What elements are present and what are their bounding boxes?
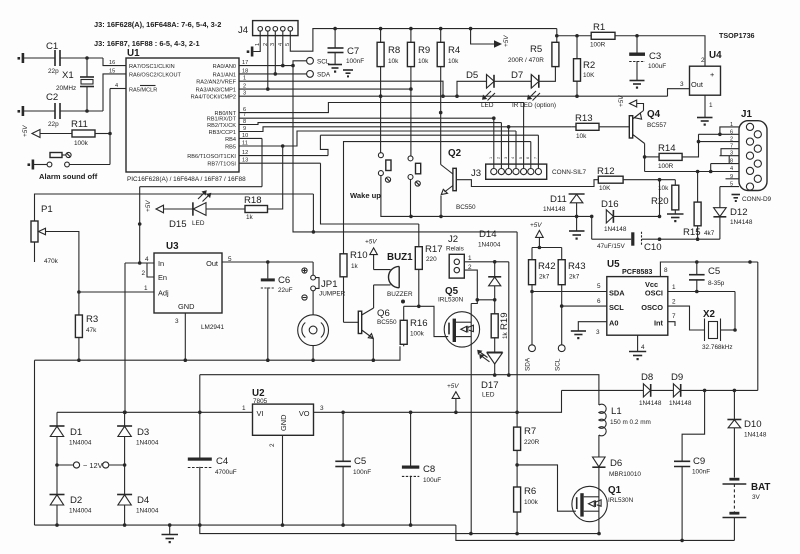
svg-text:BC550: BC550 <box>456 204 476 211</box>
resistor R10 <box>340 250 368 322</box>
wire OSCO to X2 <box>668 306 705 330</box>
wire row187 <box>140 186 262 188</box>
svg-text:C9: C9 <box>693 456 705 467</box>
resistor R8 <box>377 29 400 67</box>
wire J3 v7 <box>537 135 539 168</box>
wire J3 v3 <box>508 127 510 168</box>
svg-text:C5: C5 <box>708 266 720 277</box>
wire J1 pin3-8 bracket <box>728 156 730 164</box>
circle SDA <box>307 71 331 79</box>
diode D5 LED <box>466 70 495 109</box>
svg-text:U1: U1 <box>127 48 140 59</box>
wire C1 left <box>24 57 55 59</box>
ground at C2 <box>18 106 25 116</box>
node R42 R43 feed <box>538 246 542 250</box>
LED D17 <box>477 350 503 399</box>
wire RB3 row to R13 <box>239 127 572 132</box>
svg-text:R19: R19 <box>499 312 510 330</box>
svg-text:LM2941: LM2941 <box>201 324 225 331</box>
wire R42 R43 top row <box>532 247 562 249</box>
svg-text:PCF8583: PCF8583 <box>622 267 652 276</box>
node Adj junction <box>77 290 81 294</box>
svg-text:1N4148: 1N4148 <box>744 432 767 439</box>
node D3 top <box>123 411 127 415</box>
svg-text:R43: R43 <box>568 261 586 272</box>
svg-text:R5: R5 <box>530 44 542 55</box>
wire R1 row left <box>557 35 591 37</box>
svg-text:10k: 10k <box>448 58 459 65</box>
node R5 top tap <box>555 34 559 38</box>
svg-text:BAT: BAT <box>751 482 770 493</box>
svg-text:+5V: +5V <box>447 383 459 390</box>
svg-text:D7: D7 <box>511 70 523 81</box>
svg-text:100nF: 100nF <box>692 469 710 476</box>
wire J3 v6 <box>530 142 532 169</box>
crystal X2 <box>702 309 735 351</box>
wire RA4 long row <box>239 95 668 97</box>
node +5V tap <box>469 27 473 31</box>
svg-text:C6: C6 <box>278 275 290 286</box>
ground small at SDA <box>343 70 353 77</box>
ground at A0 <box>571 331 586 339</box>
wire Q6 base <box>344 321 359 323</box>
node X2 right <box>733 328 737 332</box>
node Q6 emitter <box>372 358 376 362</box>
node D2 bottom <box>55 523 59 527</box>
svg-text:J3: 16F628(A), 16F648A: 7-6, 5: J3: 16F628(A), 16F648A: 7-6, 5-4, 3-2 <box>94 20 221 29</box>
node C5 top on rail <box>695 260 699 264</box>
wire U3 Out row <box>222 261 313 263</box>
svg-text:+5V: +5V <box>618 95 625 107</box>
svg-text:1N4148: 1N4148 <box>543 206 566 213</box>
svg-text:C7: C7 <box>347 46 359 57</box>
transistor Q6 BC550 <box>358 308 397 339</box>
svg-text:SDA: SDA <box>317 72 331 79</box>
svg-text:100k: 100k <box>524 499 539 506</box>
connector J3 <box>471 157 587 179</box>
resistor R6 <box>514 486 539 512</box>
svg-text:D8: D8 <box>641 372 653 383</box>
wire J4 pin5 to +5V rail <box>290 29 335 52</box>
ground at U5 <box>629 352 646 361</box>
svg-text:22p: 22p <box>48 68 59 75</box>
node v140 dot <box>138 222 142 226</box>
wire RA3 row <box>239 88 411 90</box>
wire arrow to D15 <box>164 208 193 210</box>
resistor R20 <box>651 180 679 214</box>
diode D12 <box>713 207 752 239</box>
svg-text:1N4004: 1N4004 <box>136 440 159 447</box>
resistor R1 <box>590 22 615 49</box>
+5V arrow at Q4 <box>618 95 644 111</box>
svg-text:100R: 100R <box>590 42 606 49</box>
node D16 left <box>590 215 594 219</box>
capacitor C8 polarized <box>402 412 441 525</box>
wire v140 down to U3 In <box>139 187 141 263</box>
svg-text:C3: C3 <box>649 51 661 62</box>
wire gate row <box>404 306 449 336</box>
svg-text:VO: VO <box>299 409 310 418</box>
svg-text:A0: A0 <box>609 319 618 328</box>
wire Q1 drain-source vertical <box>598 468 600 534</box>
svg-text:2: 2 <box>269 443 276 447</box>
node C4 top / row375 <box>198 411 202 415</box>
svg-text:47k: 47k <box>86 327 97 334</box>
+5V arrow at R11 <box>22 125 40 138</box>
svg-text:R13: R13 <box>575 113 593 124</box>
node mid rail v517 <box>515 532 519 536</box>
wire R14 right up to J1 pin2 <box>682 134 698 157</box>
wire row 135 to J3 v7 <box>320 134 538 136</box>
+5V arrow at R42 <box>530 222 543 248</box>
svg-text:Alarm sound off: Alarm sound off <box>39 172 98 181</box>
svg-text:BC550: BC550 <box>377 319 397 326</box>
wire D16 left drop <box>591 216 593 239</box>
svg-text:R3: R3 <box>86 314 98 325</box>
svg-text:OSCI: OSCI <box>645 289 663 298</box>
svg-text:22uF: 22uF <box>278 287 293 294</box>
wire right loop down <box>757 262 759 390</box>
wire SCL row <box>562 305 607 307</box>
wire U2 GND down <box>282 435 284 525</box>
svg-text:En: En <box>158 273 167 282</box>
ground at U4 <box>697 118 713 126</box>
resistor R3 <box>75 292 98 360</box>
wire X2 up to OSCI row <box>734 292 736 331</box>
svg-text:100uF: 100uF <box>423 477 441 484</box>
wire J1 pin8 drop to pin4 row <box>710 164 712 172</box>
ground at J1 <box>732 195 741 203</box>
svg-text:2: 2 <box>672 299 676 306</box>
wire R18 right up to RB5 row <box>268 146 283 209</box>
wire J1 pin5 stub <box>720 186 739 188</box>
svg-text:3: 3 <box>504 157 508 159</box>
node U3 GND <box>184 358 188 362</box>
wire osc2 pin15 <box>103 74 126 111</box>
svg-text:4: 4 <box>641 344 645 351</box>
svg-text:R2: R2 <box>583 60 595 71</box>
node C7 top <box>333 27 337 31</box>
svg-text:C2: C2 <box>46 92 58 103</box>
resistor R2 <box>574 36 596 96</box>
node R4 bottom <box>439 111 443 115</box>
svg-text:In: In <box>158 259 164 268</box>
svg-text:32.768kHz: 32.768kHz <box>702 344 733 351</box>
svg-text:D14: D14 <box>479 229 497 240</box>
wire J4 pin2 down <box>267 31 269 89</box>
+5V arrow at D15 <box>145 200 164 213</box>
wire SCL drop to row232 <box>293 66 517 232</box>
svg-text:100nF: 100nF <box>346 58 364 65</box>
wire RB6 row <box>239 155 328 157</box>
svg-text:RA3/AN3/CMP1: RA3/AN3/CMP1 <box>196 88 236 94</box>
svg-text:R7: R7 <box>524 426 536 437</box>
crystal X1 <box>56 58 94 111</box>
svg-text:BUZ1: BUZ1 <box>387 252 413 263</box>
node speaker bottom <box>311 358 315 362</box>
svg-text:R14: R14 <box>658 143 676 154</box>
svg-text:100uF: 100uF <box>648 63 666 70</box>
+5V arrow top <box>471 29 510 48</box>
buzzer BUZ1 <box>374 252 414 304</box>
wire U3 In row <box>125 262 154 264</box>
LED D15 <box>169 190 211 230</box>
transistor Q4 BC557 <box>629 109 667 144</box>
wire OSCI row <box>668 291 735 293</box>
svg-text:RB1/RX/DT: RB1/RX/DT <box>207 116 237 122</box>
wire left rail down <box>34 360 36 525</box>
wire VI rail <box>57 411 253 413</box>
node R8 top <box>379 27 383 31</box>
node J4 pin4 to RA0 <box>281 64 285 68</box>
wire A0 ground <box>578 322 607 331</box>
IC U2 7805 <box>242 388 324 447</box>
circle SCL <box>307 57 330 65</box>
svg-text:RA5/MCLR: RA5/MCLR <box>129 88 157 94</box>
svg-text:J1: J1 <box>741 109 752 120</box>
node R3 bottom <box>77 358 81 362</box>
svg-text:470k: 470k <box>44 258 59 265</box>
svg-text:R17: R17 <box>425 244 443 255</box>
svg-text:X1: X1 <box>62 70 74 81</box>
node C6 bottom <box>266 358 270 362</box>
node R11 junction <box>108 132 112 136</box>
wire U5 pin4 ground <box>637 335 639 351</box>
svg-text:SCL: SCL <box>609 303 624 312</box>
svg-text:4k7: 4k7 <box>704 230 715 237</box>
node Q2 emitter join <box>439 215 443 219</box>
wire RB4 row to v262 <box>239 137 262 139</box>
wire RB6 row S jog <box>320 135 328 155</box>
node row232 tee <box>312 230 316 234</box>
node D4 bottom <box>123 523 127 527</box>
ground at bottom rail <box>162 525 179 543</box>
wire switch1 bottom L <box>381 176 412 217</box>
svg-text:JUMPER: JUMPER <box>319 291 346 298</box>
wire D11 down to ground <box>576 216 578 230</box>
wire ground to switch <box>34 164 47 166</box>
node switch2 join <box>409 215 413 219</box>
wire Q5 drain-source vertical <box>470 304 472 534</box>
svg-text:D15: D15 <box>169 219 187 230</box>
svg-text:1N4148: 1N4148 <box>669 400 692 407</box>
capacitor C1 <box>46 41 60 75</box>
wire J1 pin9 stub <box>726 178 740 180</box>
svg-text:C4: C4 <box>216 456 229 467</box>
svg-text:D6: D6 <box>610 458 622 469</box>
node D17 bottom <box>493 373 497 377</box>
svg-text:C10: C10 <box>644 242 662 253</box>
wire Q6 emitter down <box>372 339 374 361</box>
potentiometer P1 <box>31 204 59 265</box>
IC U1 PIC16F628 box <box>109 48 248 183</box>
wire RB1 row to J3 pin1 <box>239 117 494 119</box>
switch Wake up 2 <box>408 156 421 186</box>
diode D4 <box>117 465 159 525</box>
svg-text:D4: D4 <box>137 495 150 506</box>
wire J1 pin1 bracket <box>720 127 739 134</box>
node +5V arrow rail <box>454 411 458 415</box>
svg-text:1k: 1k <box>246 214 254 221</box>
svg-text:RB3/CCP1: RB3/CCP1 <box>209 130 236 136</box>
node R9 top <box>409 27 413 31</box>
ground at J4 pin1 <box>247 47 254 57</box>
node In drop <box>123 411 127 415</box>
resistor R11 <box>71 119 95 147</box>
node D14 top <box>493 260 497 264</box>
node Q4 collector R14 <box>643 155 647 159</box>
svg-text:4700uF: 4700uF <box>215 469 237 476</box>
svg-text:RA1/AN1: RA1/AN1 <box>213 72 236 78</box>
capacitor C2 <box>46 92 60 128</box>
node C5n bottom <box>341 523 345 527</box>
wire osc1 pin16 <box>103 58 126 66</box>
wire D8 row left <box>562 389 644 391</box>
wire RB5 row to J3 v4 <box>239 131 516 146</box>
node D11 on emitter row <box>575 215 579 219</box>
wire RA1 row to SDA <box>239 73 307 75</box>
svg-text:U3: U3 <box>166 241 179 252</box>
connector J4 <box>238 21 298 46</box>
svg-text:3: 3 <box>320 405 324 412</box>
svg-text:PIC16F628(A) / 16F648A / 16F87: PIC16F628(A) / 16F648A / 16F87 / 16F88 <box>127 176 246 183</box>
svg-text:6: 6 <box>526 157 530 159</box>
svg-text:+5V: +5V <box>503 35 510 47</box>
svg-text:100nF: 100nF <box>353 469 371 476</box>
connector J2 <box>446 234 472 278</box>
svg-text:3: 3 <box>680 81 684 88</box>
svg-text:1: 1 <box>709 102 713 109</box>
svg-text:RB5: RB5 <box>225 144 236 150</box>
wire J1 pin2 stub <box>699 141 740 143</box>
svg-text:SDA: SDA <box>525 357 532 371</box>
capacitor C3 polarized <box>629 36 666 80</box>
node D10 top <box>733 389 737 393</box>
svg-text:Relais: Relais <box>446 246 464 253</box>
svg-text:8: 8 <box>664 267 668 274</box>
wire P1 wiper to R3 <box>45 232 79 293</box>
node C5n top <box>341 411 345 415</box>
svg-text:J2: J2 <box>448 234 458 245</box>
svg-text:X2: X2 <box>703 309 716 320</box>
node C5 bottom <box>695 290 699 294</box>
node J4 pin2 to RA3 <box>266 87 270 91</box>
IC U4 TSOP1736 <box>680 31 755 109</box>
svg-text:RB2/TX/CK: RB2/TX/CK <box>207 123 236 129</box>
wire En bracket <box>147 263 154 277</box>
svg-text:6: 6 <box>597 298 601 305</box>
svg-text:JP1: JP1 <box>321 279 338 290</box>
wire D7 to D5 <box>494 80 531 82</box>
wire J2 pin1 <box>464 261 509 263</box>
wire J1 pin5 down to D12 <box>719 187 721 208</box>
node R17 bottom <box>417 305 421 309</box>
svg-text:RB6/T1OSO/T1CKI: RB6/T1OSO/T1CKI <box>187 154 236 160</box>
svg-text:J3: 16F87, 16F88 : 6-5, 4-3, 2: J3: 16F87, 16F88 : 6-5, 4-3, 2-1 <box>94 39 200 48</box>
svg-text:1N4148: 1N4148 <box>639 400 662 407</box>
+5V arrow at BUZ1 <box>365 239 377 270</box>
svg-text:10K: 10K <box>599 185 611 192</box>
svg-text:Q1: Q1 <box>608 485 622 496</box>
svg-text:4: 4 <box>511 157 515 159</box>
svg-text:2: 2 <box>497 157 501 159</box>
resistor R17 <box>415 224 442 306</box>
resistor R13 <box>575 113 599 140</box>
wire J2 pin2 <box>464 270 477 300</box>
svg-text:Out: Out <box>206 259 218 268</box>
wire rail jog right <box>456 525 735 540</box>
svg-text:7: 7 <box>672 313 676 320</box>
svg-text:+5V: +5V <box>365 239 377 246</box>
svg-text:SDA: SDA <box>609 289 625 298</box>
svg-text:10K: 10K <box>583 72 595 79</box>
ground at C3 <box>630 81 645 89</box>
wire BUZ1 bottom to Q6 collector <box>373 285 375 308</box>
wire Q2 base jog <box>456 180 598 187</box>
svg-text:R9: R9 <box>418 45 430 56</box>
svg-text:D2: D2 <box>70 495 82 506</box>
node R8 bottom tap <box>379 94 383 98</box>
wire D9 right <box>681 389 758 391</box>
wire R4 vertical to RB0 row <box>440 67 442 113</box>
wire VO rail <box>314 390 562 412</box>
node D1 bottom <box>55 463 59 467</box>
svg-text:L1: L1 <box>611 406 622 417</box>
wire R8 vertical to switch1 <box>380 67 382 153</box>
node J1 pin2 tee <box>697 140 701 144</box>
svg-text:MBR10010: MBR10010 <box>609 471 641 478</box>
capacitor C9 <box>674 456 710 540</box>
IC U5 PCF8583 <box>596 259 676 351</box>
circle SCL bottom <box>555 345 566 371</box>
svg-text:R6: R6 <box>524 486 536 497</box>
wire switch2 bottom <box>410 180 412 217</box>
wire J1 pin7 bracket <box>721 149 739 156</box>
node SCL row tee <box>560 304 564 308</box>
svg-text:U5: U5 <box>607 259 620 270</box>
capacitor C5 trimmer <box>689 262 725 292</box>
node Vcc rail dot <box>748 260 752 264</box>
wire R1 right to U4 <box>615 36 705 66</box>
svg-text:R12: R12 <box>597 166 615 177</box>
node J2 drop join <box>507 373 511 377</box>
wire Q2 collector up to R4 <box>440 113 442 165</box>
svg-text:1N4004: 1N4004 <box>136 508 159 515</box>
svg-text:Int: Int <box>654 319 664 328</box>
svg-text:1k: 1k <box>502 331 509 339</box>
svg-text:1N4148: 1N4148 <box>730 219 753 226</box>
wire R10 row to J3 v6 <box>344 142 531 254</box>
wire GND rail left <box>35 346 401 360</box>
capacitor C4 polarized <box>188 412 237 525</box>
wire Q2 emitter down <box>440 196 442 217</box>
node D16 right <box>658 215 662 219</box>
wire Int stub <box>668 322 675 326</box>
diode D7 IR LED <box>511 70 556 109</box>
wire R5 bottom to D7 <box>539 67 555 82</box>
svg-text:R15: R15 <box>683 227 701 238</box>
wire Adj row <box>79 291 154 293</box>
svg-text:D9: D9 <box>671 372 683 383</box>
svg-text:+5V: +5V <box>530 222 542 229</box>
wire RA2 row to 443 <box>239 81 443 96</box>
wire switch to pin4 line <box>69 164 110 166</box>
svg-text:RA6/OSC2/CLKOUT: RA6/OSC2/CLKOUT <box>129 72 181 78</box>
svg-text:1k: 1k <box>351 263 359 270</box>
wire GND bottom rail <box>35 524 456 526</box>
capacitor C10 polarized <box>597 232 662 253</box>
wire R11 right <box>95 133 110 135</box>
